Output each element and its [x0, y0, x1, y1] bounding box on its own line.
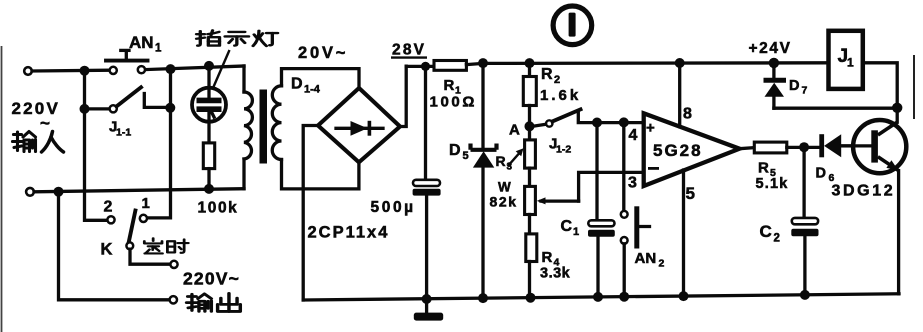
wiper wire from W to pin 3 — [537, 172, 644, 204]
svg-text:C: C — [561, 218, 573, 235]
svg-text:D: D — [449, 142, 461, 159]
label 输入 — [13, 132, 36, 152]
node junction 500u bottom — [422, 294, 432, 304]
svg-text:5G28: 5G28 — [653, 141, 703, 160]
svg-text:82k: 82k — [490, 194, 518, 210]
diode D6 — [819, 134, 852, 157]
node junction at right vertical — [166, 64, 176, 74]
transformer T primary winding — [244, 66, 252, 189]
label 输出 — [187, 294, 212, 312]
svg-text:2: 2 — [659, 258, 665, 270]
28V rail — [406, 65, 434, 68]
pushbutton AN1 — [106, 50, 148, 74]
svg-text:1-1: 1-1 — [116, 127, 131, 139]
svg-text:5: 5 — [686, 184, 695, 203]
scan border left edge — [1, 46, 3, 332]
bottom rail — [303, 294, 899, 300]
terminal: 220V input top — [24, 67, 32, 75]
node junction AN2 top — [619, 117, 629, 127]
svg-text:4: 4 — [629, 127, 638, 144]
wire left vertical (input L down to K contact 2) — [85, 71, 108, 221]
transistor Q1 3DG12 — [841, 120, 906, 173]
resistor R1 — [434, 61, 466, 71]
svg-text:20V~: 20V~ — [298, 44, 348, 62]
svg-text:220V~: 220V~ — [183, 269, 240, 289]
bridge rectifier D1-4 — [318, 88, 400, 162]
wire D7 to collector node — [774, 107, 897, 110]
pin 5 wire — [682, 170, 685, 296]
terminal output bottom — [170, 296, 177, 303]
pin 8 wire — [678, 63, 681, 127]
wire 500u cap branch from rail — [424, 66, 427, 179]
node A — [525, 121, 535, 131]
resistor R2 — [523, 63, 536, 140]
node junction collector — [892, 103, 902, 113]
svg-text:500µ: 500µ — [371, 199, 416, 216]
zener diode D5 — [471, 63, 497, 298]
svg-text:D: D — [789, 78, 799, 94]
terminal output top — [170, 261, 177, 268]
svg-text:C: C — [760, 222, 772, 241]
svg-text:R: R — [496, 153, 506, 169]
svg-text:5.1k: 5.1k — [756, 176, 789, 192]
resistor R5 — [754, 142, 787, 153]
svg-text:R: R — [758, 160, 769, 177]
node junction C1 top — [592, 118, 602, 128]
svg-text:1: 1 — [155, 43, 162, 55]
node junction J1-1 left — [80, 104, 90, 114]
node junction J1-1 right — [165, 103, 175, 113]
wire bridge positive up to 28V rail — [400, 66, 406, 126]
transformer secondary winding — [272, 69, 359, 189]
wire op-amp output — [740, 148, 755, 149]
ground — [414, 299, 443, 321]
svg-text:2: 2 — [774, 233, 780, 245]
scan border right edge — [913, 55, 915, 119]
node junction lamp bottom — [204, 184, 214, 194]
op-amp U1 5G28 — [644, 113, 740, 186]
resistor R4 — [526, 234, 537, 298]
diode D7 flyback — [764, 63, 787, 108]
svg-text:100k: 100k — [198, 200, 239, 217]
label 指示灯 pointer line — [213, 50, 230, 88]
svg-text:~: ~ — [40, 114, 50, 133]
wire neutral horizontal to primary bottom — [34, 189, 244, 192]
svg-text:D: D — [291, 76, 303, 93]
node junction at lamp top — [204, 61, 214, 71]
svg-text:AN: AN — [129, 33, 154, 52]
node junction C2 bottom — [800, 290, 810, 300]
svg-text:1.6k: 1.6k — [540, 87, 581, 104]
pushbutton AN2 — [621, 122, 650, 296]
svg-text:A: A — [509, 122, 520, 139]
svg-text:8: 8 — [683, 106, 692, 123]
svg-text:R: R — [444, 77, 455, 94]
resistor 100k — [203, 122, 214, 189]
svg-text:R: R — [542, 249, 553, 266]
node junction output tap — [54, 187, 64, 197]
node junction C1 bottom — [593, 292, 603, 302]
svg-text:W: W — [498, 180, 511, 195]
svg-text:+24V: +24V — [749, 40, 792, 57]
switch K contact 2 — [107, 216, 114, 223]
node junction D5 top — [478, 58, 488, 68]
svg-text:2CP11x4: 2CP11x4 — [308, 224, 390, 242]
relay contact J1-1 — [110, 87, 171, 112]
svg-text:1: 1 — [142, 195, 150, 212]
svg-text:1-4: 1-4 — [304, 84, 321, 96]
node junction +24V — [769, 58, 779, 68]
svg-text:R: R — [541, 66, 553, 83]
svg-text:2: 2 — [104, 199, 113, 216]
capacitor C1 — [588, 123, 615, 297]
svg-text:AN: AN — [635, 250, 657, 267]
wire right vertical down to K contact 1 — [147, 69, 171, 218]
node junction AN2 bottom — [619, 292, 629, 302]
wire AN1 right to transformer primary top — [145, 66, 244, 70]
svg-text:5: 5 — [463, 150, 469, 162]
node junction R4 bottom — [526, 293, 536, 303]
capacitor C2 — [791, 147, 818, 295]
svg-text:28V: 28V — [392, 42, 426, 59]
relay contact J1-2 — [533, 109, 644, 126]
switch K pole and arm — [126, 211, 170, 265]
wire J1-1 left stub — [85, 107, 110, 110]
node junction D5 bottom — [478, 293, 488, 303]
wire emitter down — [897, 171, 900, 294]
wire output bottom — [59, 192, 170, 300]
relay coil J1 — [829, 31, 863, 89]
transformer core — [260, 90, 268, 164]
svg-text:3.3k: 3.3k — [540, 266, 571, 282]
switch K contact 1 — [140, 215, 147, 222]
potentiometer W 82k — [525, 186, 536, 234]
capacitor 500u — [413, 180, 441, 299]
svg-text:1: 1 — [573, 226, 579, 238]
wire collector up — [896, 108, 899, 123]
svg-text:1-2: 1-2 — [556, 144, 571, 156]
wire J1 right to collector node — [863, 63, 897, 108]
wire bridge negative to bottom rail — [303, 126, 318, 301]
node junction R2 top — [525, 58, 535, 68]
svg-text:2: 2 — [554, 74, 560, 86]
label 指示灯 — [197, 30, 220, 45]
circled figure number 1 — [553, 6, 592, 45]
node junction C2 top — [799, 142, 809, 152]
terminal: 220V input bottom — [26, 188, 34, 196]
svg-text:220V: 220V — [12, 99, 61, 118]
svg-text:3DG12: 3DG12 — [832, 183, 896, 200]
svg-text:3: 3 — [628, 175, 637, 192]
trimmer R3 — [508, 140, 536, 187]
svg-text:100Ω: 100Ω — [430, 94, 477, 111]
svg-text:+: + — [646, 120, 655, 137]
label 定时 — [144, 238, 162, 253]
svg-text:D: D — [816, 166, 826, 182]
wire top-left to AN1 — [32, 69, 110, 73]
neon lamp indicator — [192, 66, 226, 122]
svg-text:7: 7 — [802, 85, 808, 97]
svg-text:1: 1 — [847, 56, 854, 70]
node junction top of left vertical — [80, 66, 90, 76]
svg-text:K: K — [101, 241, 113, 259]
svg-text:3: 3 — [507, 162, 513, 173]
